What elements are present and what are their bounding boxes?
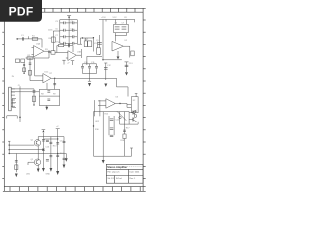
svg-text:100n: 100n — [48, 30, 52, 32]
svg-text:U1A: U1A — [36, 43, 41, 46]
svg-text:KiCad: KiCad — [116, 178, 121, 180]
svg-text:Rev: 1: Rev: 1 — [130, 178, 137, 180]
svg-text:VCC: VCC — [113, 17, 118, 19]
svg-text:File: amp.sch: File: amp.sch — [108, 171, 120, 173]
svg-text:GND: GND — [46, 174, 51, 176]
svg-text:U1C: U1C — [44, 72, 49, 74]
svg-text:U1B: U1B — [77, 52, 82, 54]
svg-text:Sh: 1/1: Sh: 1/1 — [108, 178, 115, 180]
svg-text:+15V: +15V — [101, 17, 106, 19]
svg-text:PDF: PDF — [9, 5, 34, 19]
svg-text:Stereo Amplifier: Stereo Amplifier — [107, 165, 127, 169]
svg-text:Date: 2024: Date: 2024 — [130, 170, 141, 173]
